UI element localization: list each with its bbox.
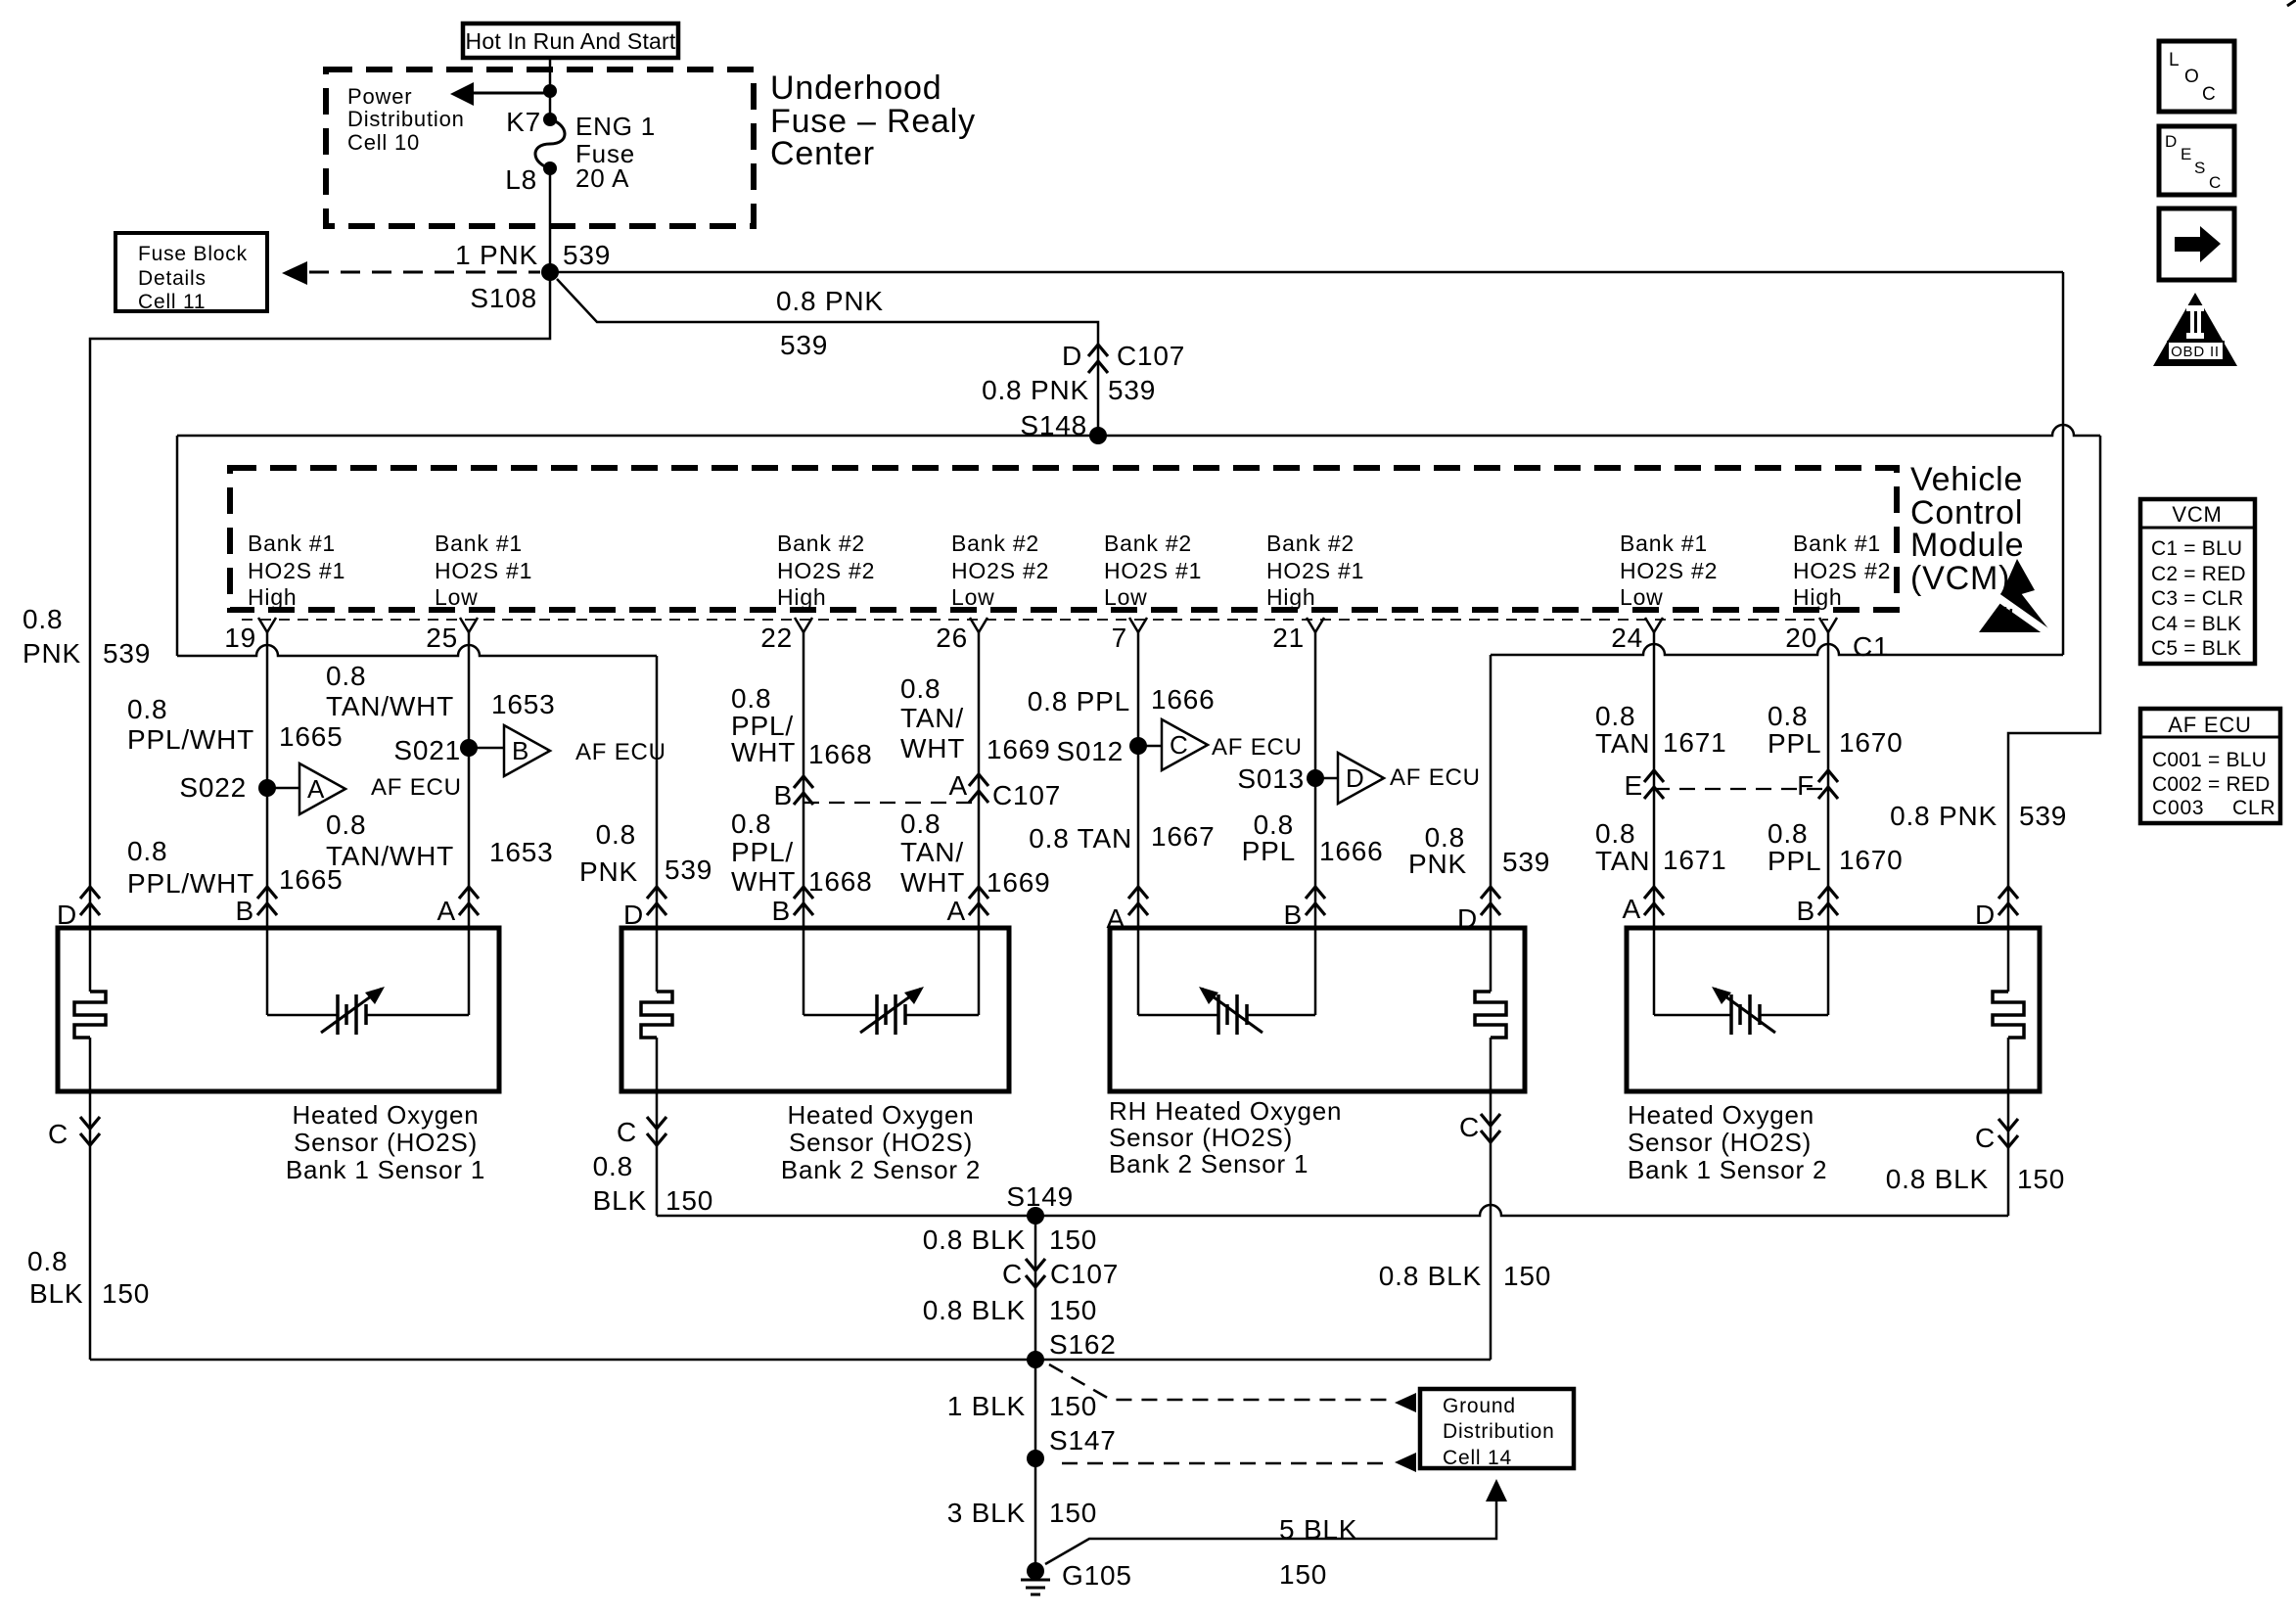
svg-text:PPL/: PPL/	[731, 837, 794, 867]
svg-text:C1 = BLU: C1 = BLU	[2151, 537, 2242, 560]
svg-text:150: 150	[1049, 1498, 1097, 1528]
svg-text:A: A	[307, 774, 325, 804]
svg-text:D: D	[1975, 900, 1996, 930]
svg-text:PPL: PPL	[1768, 846, 1821, 876]
svg-text:0.8: 0.8	[596, 819, 636, 850]
component box: RH HO2S Bank 2 Sensor 1	[1110, 928, 1525, 1091]
svg-text:A: A	[437, 896, 456, 926]
wire right drop x=2108 down to lower rail	[2062, 272, 2065, 655]
svg-text:HO2S #1: HO2S #1	[435, 558, 532, 583]
wire 1 PNK 539 from S108 to right side	[550, 271, 2063, 274]
svg-text:C4 = BLK: C4 = BLK	[2151, 613, 2241, 635]
dashed box: Underhood Fuse-Relay Center	[326, 69, 754, 226]
svg-text:19: 19	[224, 623, 256, 653]
svg-text:S013: S013	[1237, 763, 1305, 794]
svg-text:E: E	[2181, 145, 2192, 163]
svg-text:S: S	[2194, 159, 2206, 177]
connector C107 pin B (up arrows)	[794, 776, 813, 788]
svg-text:0.8 BLK: 0.8 BLK	[923, 1295, 1026, 1325]
svg-text:20: 20	[1785, 623, 1817, 653]
svg-text:0.8 TAN: 0.8 TAN	[1029, 823, 1132, 854]
svg-text:Low: Low	[1104, 584, 1148, 610]
wire RH sensor ground C down to S162 rail	[1490, 1038, 1492, 1360]
svg-text:HO2S #2: HO2S #2	[1620, 558, 1718, 583]
svg-text:B: B	[774, 780, 793, 810]
svg-text:PPL: PPL	[1768, 728, 1821, 759]
svg-text:Fuse Block: Fuse Block	[138, 243, 248, 265]
svg-text:C: C	[617, 1117, 637, 1147]
wire sensor1 ground C down	[89, 1038, 92, 1360]
svg-text:20 A: 20 A	[575, 163, 629, 193]
sensor2 pin C arrow	[647, 1117, 666, 1129]
heater element sensor 1	[74, 992, 106, 1038]
table AF ECU connector colors	[2140, 709, 2280, 823]
VCM pin 19 connector	[258, 618, 267, 632]
sensor1 pin C arrow	[80, 1117, 100, 1129]
svg-text:0.8: 0.8	[1768, 701, 1808, 731]
thin dashed VCM connector face line	[242, 619, 1828, 621]
wire diagonal 0.8 PNK from S108	[557, 279, 1098, 436]
svg-text:HO2S #2: HO2S #2	[777, 558, 875, 583]
svg-text:D: D	[1346, 763, 1365, 793]
svg-text:S012: S012	[1056, 736, 1124, 766]
reference box: Fuse Block Details Cell 11	[115, 233, 267, 311]
triangle A to AF ECU	[299, 763, 345, 814]
splice S147	[1027, 1450, 1044, 1467]
svg-text:C5 = BLK: C5 = BLK	[2151, 637, 2241, 660]
svg-text:22: 22	[760, 623, 793, 653]
sensor pin A arrow at x=1690	[1644, 887, 1664, 899]
wire S162 ground rail	[90, 1359, 1491, 1362]
svg-text:Low: Low	[1620, 584, 1664, 610]
svg-text:S147: S147	[1049, 1425, 1117, 1455]
dashed connector line B-A C107	[804, 802, 979, 804]
ground G105	[1027, 1562, 1044, 1580]
svg-text:1668: 1668	[808, 739, 873, 769]
svg-text:Bank #1: Bank #1	[1793, 531, 1881, 556]
svg-text:S022: S022	[179, 772, 247, 803]
svg-text:VCM: VCM	[2172, 502, 2222, 527]
svg-text:B: B	[236, 896, 254, 926]
svg-text:0.8: 0.8	[731, 808, 771, 839]
svg-text:L8: L8	[505, 164, 537, 195]
sensing element sensor 1	[267, 1014, 338, 1017]
dashed arrow to Fuse Block Details	[309, 271, 540, 274]
svg-text:C2 = RED: C2 = RED	[2151, 563, 2246, 585]
sensor pin A arrow at x=479	[459, 887, 479, 899]
wire lower PNK rail left (feeds sensor2 D)	[177, 645, 657, 656]
svg-text:C: C	[1975, 1123, 1996, 1153]
connector C107 pin E (up arrows)	[1644, 770, 1664, 782]
heater element sensor 4	[1993, 992, 2024, 1038]
component box: HO2S Bank 1 Sensor 1	[58, 928, 499, 1091]
sensor pin A arrow at x=1000	[969, 887, 988, 899]
svg-text:B: B	[512, 736, 529, 765]
wire S149 ground rail	[657, 1205, 2008, 1216]
svg-text:Hot In Run And Start: Hot In Run And Start	[466, 28, 676, 54]
svg-text:G105: G105	[1062, 1560, 1132, 1591]
svg-text:C: C	[48, 1119, 69, 1149]
svg-text:21: 21	[1272, 623, 1305, 653]
svg-text:1667: 1667	[1151, 821, 1216, 852]
svg-text:1 PNK: 1 PNK	[455, 240, 538, 270]
svg-text:1653: 1653	[489, 837, 554, 867]
svg-text:A: A	[947, 896, 966, 926]
svg-text:Sensor (HO2S): Sensor (HO2S)	[789, 1128, 973, 1157]
svg-text:Heated Oxygen: Heated Oxygen	[292, 1100, 479, 1130]
svg-text:0.8: 0.8	[731, 683, 771, 714]
svg-text:539: 539	[103, 638, 151, 669]
svg-text:Bank #2: Bank #2	[1266, 531, 1355, 556]
sensor pin D arrow at x=1523	[1481, 887, 1500, 899]
svg-text:PNK: PNK	[579, 856, 638, 887]
sensor pin B arrow at x=821	[794, 887, 813, 899]
svg-text:High: High	[777, 584, 827, 610]
reference box: Ground Distribution Cell 14	[1420, 1389, 1574, 1468]
wire from VCM pin 26 down	[978, 632, 981, 1015]
wire right PNK jog to sensor4 D	[2008, 436, 2100, 992]
svg-text:5 BLK: 5 BLK	[1279, 1514, 1357, 1545]
svg-text:K7: K7	[506, 107, 541, 137]
svg-text:L: L	[2169, 50, 2180, 70]
svg-text:C3 = CLR: C3 = CLR	[2151, 587, 2243, 610]
svg-text:C: C	[2209, 173, 2222, 192]
svg-text:C003: C003	[2152, 797, 2204, 819]
wire PNK drop to RH sensor pin D	[1490, 655, 1492, 992]
svg-text:Sensor (HO2S): Sensor (HO2S)	[1628, 1128, 1812, 1157]
sensor pin B arrow at x=273	[257, 887, 277, 899]
sensing element RH sensor	[1138, 1014, 1218, 1017]
svg-text:0.8 BLK: 0.8 BLK	[1886, 1164, 1989, 1194]
svg-text:0.8 PNK: 0.8 PNK	[982, 375, 1089, 405]
svg-text:Sensor (HO2S): Sensor (HO2S)	[294, 1128, 478, 1157]
sensor4 pin C arrow	[1998, 1119, 2018, 1131]
svg-text:C107: C107	[1117, 341, 1185, 371]
svg-text:Distribution: Distribution	[347, 107, 465, 131]
triangle B to AF ECU	[504, 725, 550, 776]
wire 5 BLK 150 from G105	[1045, 1501, 1496, 1564]
svg-text:150: 150	[1049, 1391, 1097, 1421]
svg-text:ENG 1: ENG 1	[575, 112, 656, 141]
svg-text:0.8 BLK: 0.8 BLK	[1379, 1261, 1482, 1291]
sensing element sensor 4	[1654, 1014, 1731, 1017]
svg-text:Bank 2 Sensor 2: Bank 2 Sensor 2	[781, 1155, 981, 1184]
svg-text:0.8: 0.8	[127, 836, 167, 866]
svg-text:Bank 1 Sensor 1: Bank 1 Sensor 1	[286, 1155, 485, 1184]
svg-text:1671: 1671	[1663, 727, 1727, 758]
svg-text:HO2S #1: HO2S #1	[248, 558, 345, 583]
svg-text:539: 539	[563, 240, 611, 270]
svg-text:C107: C107	[1050, 1259, 1119, 1289]
svg-text:Bank 1 Sensor 2: Bank 1 Sensor 2	[1628, 1155, 1827, 1184]
svg-text:Cell 10: Cell 10	[347, 130, 420, 155]
svg-text:Bank #1: Bank #1	[1620, 531, 1708, 556]
icon forward arrow	[2159, 208, 2234, 280]
node K7	[543, 113, 557, 126]
svg-text:0.8: 0.8	[593, 1151, 633, 1181]
svg-text:HO2S #2: HO2S #2	[1793, 558, 1891, 583]
sensing element sensor 2	[804, 1014, 877, 1017]
svg-text:150: 150	[666, 1185, 713, 1216]
svg-text:Heated Oxygen: Heated Oxygen	[787, 1100, 974, 1130]
svg-text:0.8 PNK: 0.8 PNK	[1890, 801, 1998, 831]
sensor pin A arrow at x=1163	[1128, 887, 1148, 899]
svg-text:D: D	[1062, 341, 1082, 371]
svg-text:E: E	[1625, 770, 1643, 801]
svg-text:Sensor (HO2S): Sensor (HO2S)	[1109, 1123, 1293, 1152]
splice S162	[1027, 1351, 1044, 1368]
svg-text:High: High	[1266, 584, 1316, 610]
splice S108	[541, 263, 559, 281]
svg-text:0.8: 0.8	[326, 809, 366, 840]
node: power distribution tap	[543, 84, 557, 98]
svg-text:539: 539	[1502, 847, 1550, 877]
connector C107 pin F (up arrows)	[1818, 770, 1838, 782]
svg-text:Ground: Ground	[1443, 1395, 1516, 1417]
wire PNK drop to HO2S2 pin D	[656, 656, 659, 992]
wire from VCM pin 25 down	[468, 632, 471, 1015]
dashed box: Vehicle Control Module (VCM)	[230, 468, 1897, 610]
svg-text:D: D	[57, 900, 77, 930]
svg-text:O: O	[2184, 67, 2200, 87]
icon LOC	[2159, 41, 2234, 112]
svg-text:1666: 1666	[1319, 836, 1384, 866]
svg-text:150: 150	[1049, 1224, 1097, 1255]
wire S149 down to G105	[1034, 1216, 1037, 1571]
splice S013	[1307, 769, 1324, 787]
wire lower PNK rail right (feeds RH sensor D)	[1491, 644, 2063, 655]
svg-text:C: C	[1002, 1259, 1023, 1289]
node L8	[543, 162, 557, 175]
svg-text:1670: 1670	[1839, 727, 1904, 758]
VCM pin 24 connector	[1645, 618, 1654, 632]
VCM pin 21 connector	[1307, 618, 1315, 632]
svg-text:1669: 1669	[987, 867, 1051, 898]
heater element sensor 2	[641, 992, 672, 1038]
wire S148 rail y=445	[177, 425, 2100, 436]
wire from VCM pin 21 down	[1314, 632, 1317, 1015]
splice S012	[1129, 737, 1147, 755]
svg-text:B: B	[1284, 900, 1303, 930]
svg-text:OBD II: OBD II	[2171, 344, 2220, 360]
svg-text:Bank #2: Bank #2	[777, 531, 865, 556]
wire from VCM pin 19 down	[266, 632, 269, 1015]
icon OBD II triangle	[2153, 293, 2237, 366]
component box: HO2S Bank 2 Sensor 2	[621, 928, 1009, 1091]
svg-text:BLK: BLK	[29, 1278, 83, 1309]
svg-text:Details: Details	[138, 267, 207, 290]
wire from VCM pin 24 down	[1653, 632, 1656, 1015]
svg-text:Underhood: Underhood	[770, 69, 941, 107]
wire fuse to S108	[549, 168, 552, 272]
svg-text:0.8: 0.8	[900, 808, 941, 839]
svg-text:0.8: 0.8	[900, 673, 941, 704]
VCM pin 20 connector	[1819, 618, 1828, 632]
svg-text:Low: Low	[435, 584, 479, 610]
svg-text:0.8: 0.8	[1595, 818, 1635, 849]
arrow into Ground Distribution (lower)	[1395, 1453, 1416, 1472]
svg-text:1670: 1670	[1839, 845, 1904, 875]
svg-text:Bank #2: Bank #2	[1104, 531, 1192, 556]
svg-text:HO2S #1: HO2S #1	[1104, 558, 1202, 583]
svg-text:TAN/: TAN/	[900, 703, 964, 733]
heater element RH sensor	[1475, 992, 1506, 1038]
dashed line S162 to Ground Distribution	[1049, 1364, 1388, 1400]
fuse F: ENG 1 Fuse 20 A (S-curve symbol)	[535, 119, 565, 168]
svg-text:Low: Low	[951, 584, 995, 610]
svg-text:PNK: PNK	[1408, 849, 1467, 879]
power label box: Hot In Run And Start	[463, 23, 678, 58]
svg-text:S108: S108	[470, 283, 537, 313]
svg-text:C: C	[2202, 84, 2217, 105]
wire S108 branch down-left	[90, 272, 550, 992]
svg-text:Module: Module	[1910, 527, 2024, 564]
splice S021	[460, 739, 478, 757]
svg-text:RH Heated Oxygen: RH Heated Oxygen	[1109, 1096, 1342, 1126]
svg-text:D: D	[2165, 132, 2178, 151]
svg-text:TAN/WHT: TAN/WHT	[326, 691, 454, 721]
svg-text:C: C	[1459, 1112, 1480, 1142]
splice S022	[258, 779, 276, 797]
svg-text:TAN: TAN	[1595, 728, 1650, 759]
svg-text:150: 150	[1503, 1261, 1551, 1291]
svg-text:Center: Center	[770, 135, 875, 172]
component box: HO2S Bank 1 Sensor 2	[1627, 928, 2040, 1091]
svg-text:0.8: 0.8	[326, 661, 366, 691]
VCM pin 26 connector	[970, 618, 979, 632]
svg-text:0.8 PPL: 0.8 PPL	[1028, 686, 1130, 716]
connector C107 pin D (up arrows)	[1088, 345, 1108, 356]
table VCM connector colors	[2140, 499, 2255, 664]
wire from VCM pin 7 down	[1137, 632, 1140, 1015]
svg-text:1669: 1669	[987, 734, 1051, 764]
svg-text:B: B	[1797, 896, 1815, 926]
svg-text:Bank #1: Bank #1	[435, 531, 523, 556]
wire sensor4 ground C down	[2007, 1038, 2010, 1216]
svg-text:0.8: 0.8	[1595, 701, 1635, 731]
svg-text:0.8: 0.8	[27, 1246, 68, 1276]
triangle D to AF ECU	[1338, 753, 1384, 804]
wire from Hot In Run And Start into fuse box	[549, 58, 552, 119]
svg-text:Heated Oxygen: Heated Oxygen	[1628, 1100, 1814, 1130]
svg-text:BLK: BLK	[593, 1185, 647, 1216]
svg-text:C001 = BLU: C001 = BLU	[2152, 749, 2267, 771]
svg-text:WHT: WHT	[731, 866, 796, 897]
svg-text:AF ECU: AF ECU	[2168, 713, 2251, 737]
RH sensor pin C arrow	[1481, 1114, 1500, 1126]
sensor pin D arrow at x=671	[647, 887, 666, 899]
svg-text:AF ECU: AF ECU	[1212, 734, 1303, 761]
svg-text:PPL/WHT: PPL/WHT	[127, 724, 254, 755]
svg-text:150: 150	[2017, 1164, 2065, 1194]
svg-text:25: 25	[426, 623, 458, 653]
svg-text:TAN/: TAN/	[900, 837, 964, 867]
splice S149	[1027, 1207, 1044, 1224]
arrow into Ground Distribution (upper)	[1395, 1393, 1416, 1412]
svg-text:1665: 1665	[279, 721, 344, 752]
svg-text:AF ECU: AF ECU	[1390, 764, 1481, 791]
svg-text:7: 7	[1112, 623, 1127, 653]
svg-text:D: D	[623, 900, 644, 930]
VCM pin 7 connector	[1129, 618, 1138, 632]
svg-text:Cell 14: Cell 14	[1443, 1447, 1512, 1469]
svg-text:High: High	[248, 584, 298, 610]
svg-text:F: F	[1797, 770, 1814, 801]
dashed line S147 to Ground Distribution	[1062, 1462, 1388, 1465]
VCM pin 22 connector	[795, 618, 804, 632]
svg-text:HO2S #1: HO2S #1	[1266, 558, 1364, 583]
svg-text:C: C	[1170, 730, 1189, 760]
svg-text:Cell 11: Cell 11	[138, 291, 206, 313]
svg-text:B: B	[772, 896, 791, 926]
page corner mark	[2287, 0, 2296, 6]
svg-text:PPL/WHT: PPL/WHT	[127, 868, 254, 899]
dashed connector line E-F C107	[1654, 788, 1828, 790]
svg-text:Bank #1: Bank #1	[248, 531, 336, 556]
svg-text:0.8: 0.8	[127, 694, 167, 724]
arrow to Power Distribution	[474, 92, 550, 95]
svg-text:PNK: PNK	[23, 638, 81, 669]
sensor pin B arrow at x=1868	[1818, 887, 1838, 899]
svg-text:539: 539	[665, 855, 712, 885]
svg-text:150: 150	[102, 1278, 150, 1309]
svg-text:WHT: WHT	[731, 737, 796, 767]
svg-text:Bank 2 Sensor 1: Bank 2 Sensor 1	[1109, 1149, 1309, 1178]
svg-text:539: 539	[1108, 375, 1156, 405]
svg-text:1668: 1668	[808, 866, 873, 897]
svg-text:C107: C107	[992, 780, 1061, 810]
svg-text:S162: S162	[1049, 1329, 1117, 1360]
wire left drop to lower PNK rail	[176, 436, 179, 656]
VCM pin 25 connector	[460, 618, 469, 632]
svg-text:TAN/WHT: TAN/WHT	[326, 841, 454, 871]
svg-text:26: 26	[936, 623, 968, 653]
svg-text:WHT: WHT	[900, 867, 965, 898]
svg-text:150: 150	[1279, 1559, 1327, 1590]
svg-text:Distribution: Distribution	[1443, 1420, 1555, 1443]
svg-text:AF ECU: AF ECU	[575, 739, 666, 765]
svg-text:C002 = RED: C002 = RED	[2152, 773, 2270, 796]
splice S148	[1089, 427, 1107, 444]
svg-text:150: 150	[1049, 1295, 1097, 1325]
svg-text:24: 24	[1611, 623, 1643, 653]
svg-text:Vehicle: Vehicle	[1910, 461, 2023, 498]
svg-text:CLR: CLR	[2232, 797, 2275, 819]
svg-text:A: A	[1623, 894, 1641, 924]
sensor pin D arrow at x=92	[80, 887, 100, 899]
wire from VCM pin 20 down	[1827, 632, 1830, 1015]
svg-text:High: High	[1793, 584, 1843, 610]
wire from VCM pin 22 down	[803, 632, 805, 1015]
svg-text:PPL: PPL	[1242, 836, 1296, 866]
svg-text:AF ECU: AF ECU	[371, 774, 462, 801]
svg-text:Power: Power	[347, 84, 412, 109]
svg-text:HO2S #2: HO2S #2	[951, 558, 1049, 583]
svg-text:S149: S149	[1006, 1181, 1074, 1212]
icon DESC	[2159, 126, 2234, 195]
svg-text:3 BLK: 3 BLK	[947, 1498, 1026, 1528]
svg-text:0.8: 0.8	[23, 604, 63, 634]
svg-text:WHT: WHT	[900, 733, 965, 763]
svg-text:0.8 PNK: 0.8 PNK	[776, 286, 884, 316]
svg-text:539: 539	[780, 330, 828, 360]
svg-text:1671: 1671	[1663, 845, 1727, 875]
arrow up to Ground Distribution	[1486, 1479, 1507, 1501]
sensor pin B arrow at x=1344	[1306, 887, 1325, 899]
svg-text:1666: 1666	[1151, 684, 1216, 715]
svg-text:0.8 BLK: 0.8 BLK	[923, 1224, 1026, 1255]
svg-text:Bank #2: Bank #2	[951, 531, 1039, 556]
